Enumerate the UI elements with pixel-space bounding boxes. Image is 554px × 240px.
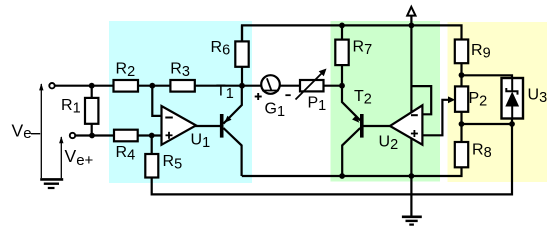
- svg-text:R6: R6: [211, 39, 231, 59]
- wire U2 inverting loop: [411, 86, 431, 114]
- wire upper input rail: [55, 85, 242, 87]
- ground (input side): [40, 179, 63, 188]
- junction node top rail center: [409, 23, 415, 29]
- op-amp U2 (mirrored): [379, 105, 423, 153]
- resistor R4: [114, 130, 138, 164]
- ground (center): [402, 176, 422, 225]
- potentiometer P2: [448, 86, 487, 111]
- input terminal (lower): [70, 133, 75, 138]
- junction node top rail R7: [339, 23, 345, 29]
- svg-text:R5: R5: [163, 153, 183, 173]
- wire G1/P1 row: [242, 85, 342, 87]
- wire U3 top: [462, 75, 513, 78]
- junction node R2/R3: [149, 83, 155, 89]
- junction node R1 top: [89, 83, 95, 89]
- wire R1 column: [91, 86, 93, 136]
- svg-text:U3: U3: [528, 87, 548, 107]
- resistor R2: [114, 60, 139, 91]
- wire T2 base to U2 output: [363, 125, 391, 127]
- svg-text:R2: R2: [116, 60, 136, 80]
- svg-text:T2: T2: [354, 88, 372, 108]
- source G1: [255, 75, 291, 120]
- junction node P2/R8: [459, 121, 465, 127]
- svg-text:U1: U1: [191, 132, 211, 152]
- junction node R1 bottom: [89, 133, 95, 139]
- junction node R4/R5: [149, 133, 155, 139]
- input terminal (upper): [49, 83, 54, 88]
- wire R7 column: [341, 25, 343, 39]
- svg-text:P1: P1: [308, 95, 327, 115]
- wire R7 to T2 emitter: [342, 65, 360, 120]
- resistor R8: [455, 142, 492, 168]
- power supply arrow: [407, 7, 415, 16]
- Ve+ measurement arrow and label: [59, 136, 93, 178]
- wire U2 non-inverting to P2 wiper: [422, 100, 449, 136]
- svg-text:T1: T1: [216, 83, 234, 103]
- svg-text:G1: G1: [265, 101, 286, 121]
- wire collector/ground line y176: [242, 167, 462, 176]
- junction node R7/P1/T2: [339, 83, 345, 89]
- wire R9 column: [460, 63, 462, 87]
- stage highlight yellow (reference stage): [448, 22, 548, 182]
- junction node U3 bottom: [509, 121, 515, 127]
- wire T1 emitter: [223, 86, 241, 124]
- resistor R9: [455, 40, 491, 64]
- resistor R1: [61, 97, 98, 124]
- junction node R6/T1: [239, 83, 245, 89]
- svg-text:R3: R3: [170, 60, 190, 80]
- svg-text:Ve: Ve: [12, 121, 32, 143]
- wire inverting input drop: [152, 86, 161, 116]
- svg-text:R7: R7: [353, 39, 373, 59]
- svg-text:R8: R8: [472, 142, 492, 162]
- wire top supply rail: [242, 25, 462, 40]
- junction node R9/P2: [459, 72, 465, 78]
- svg-text:R1: R1: [61, 97, 81, 117]
- resistor R3: [170, 60, 194, 91]
- svg-text:P2: P2: [469, 90, 488, 110]
- wire T1 collector: [223, 128, 241, 176]
- transistor T2 (PNP, mirrored): [352, 88, 372, 138]
- wire lower input rail: [75, 134, 161, 136]
- svg-text:Ve+: Ve+: [65, 146, 94, 169]
- op-amp U1: [162, 106, 211, 151]
- Ve- measurement arrow and label: [12, 83, 44, 178]
- junction node ground line center: [409, 173, 415, 179]
- wire U1 output to T1 base: [195, 125, 220, 127]
- svg-text:R9: R9: [471, 42, 491, 62]
- wire main center vertical: [410, 15, 412, 176]
- svg-text:U2: U2: [379, 134, 399, 154]
- resistor R5: [145, 153, 182, 178]
- resistor R6: [211, 39, 249, 67]
- resistor R7: [335, 39, 372, 66]
- zener reference U3: [502, 78, 548, 119]
- transistor T1 (PNP): [216, 83, 234, 138]
- potentiometer P1: [296, 69, 327, 115]
- wire P2 to R8: [460, 112, 462, 143]
- wire R5 / bottom return rail: [152, 124, 512, 194]
- wire R6 column: [241, 25, 243, 85]
- stage highlight cyan (input stage): [109, 21, 252, 183]
- svg-text:R4: R4: [116, 144, 136, 164]
- junction node ground line T2: [339, 173, 345, 179]
- wire U3 bottom row: [462, 119, 513, 125]
- wire T2 collector: [342, 128, 360, 176]
- stage highlight green (T2 stage): [331, 21, 441, 182]
